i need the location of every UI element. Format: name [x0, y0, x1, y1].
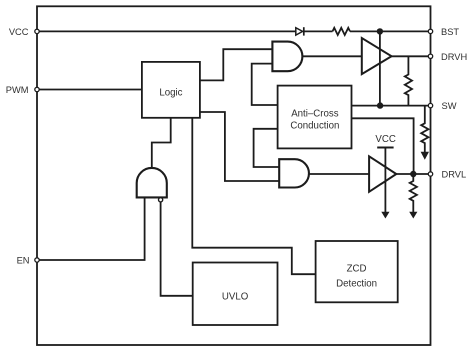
svg-text:Detection: Detection — [336, 278, 377, 289]
svg-text:BST: BST — [441, 27, 459, 37]
svg-text:Logic: Logic — [159, 88, 182, 99]
svg-text:ZCD: ZCD — [347, 264, 367, 275]
svg-text:SW: SW — [442, 101, 457, 111]
svg-text:EN: EN — [17, 256, 30, 266]
svg-text:VCC: VCC — [375, 134, 395, 145]
svg-text:DRVH: DRVH — [441, 52, 467, 62]
svg-text:Conduction: Conduction — [290, 121, 339, 132]
svg-text:DRVL: DRVL — [442, 170, 467, 180]
svg-text:PWM: PWM — [6, 85, 29, 95]
svg-text:Anti–Cross: Anti–Cross — [291, 108, 339, 119]
svg-text:UVLO: UVLO — [222, 291, 249, 302]
svg-text:VCC: VCC — [9, 27, 29, 37]
